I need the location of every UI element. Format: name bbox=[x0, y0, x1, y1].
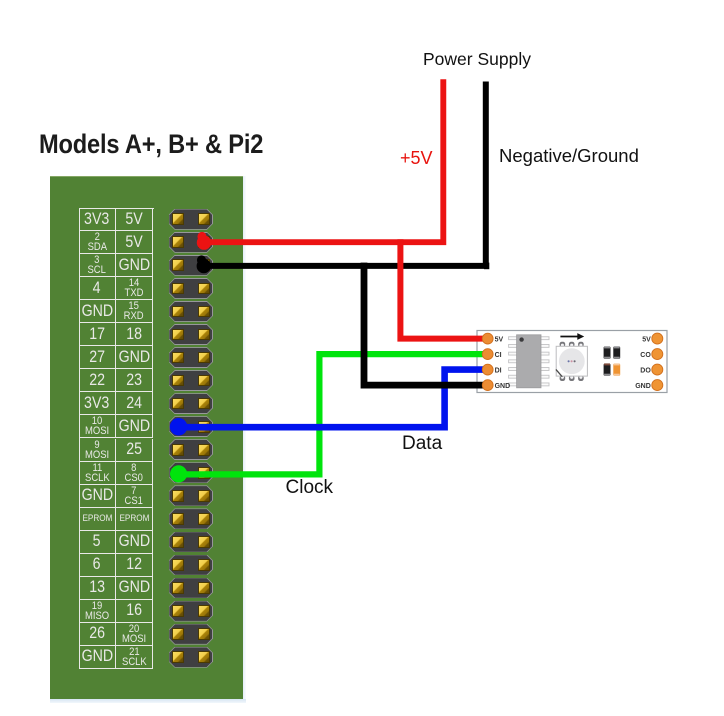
pin label row 13: GND | 7/CS1 bbox=[79, 485, 116, 508]
capacitor C3 bbox=[604, 363, 611, 375]
pin label row 11: 9/MOSI | 25 bbox=[79, 439, 116, 462]
capacitor C1 bbox=[604, 346, 611, 359]
LED strip module board outline bbox=[477, 331, 667, 393]
red wire branch to module 5V bbox=[397, 239, 489, 338]
header pin pair row 7 (physical pins 13-14) bbox=[169, 347, 213, 368]
header pin pair row 15 (physical pins 29-30) bbox=[169, 532, 213, 553]
red junction dot at 5V pin bbox=[197, 235, 211, 249]
label Power Supply bbox=[423, 49, 531, 70]
wires bbox=[170, 79, 490, 482]
module left pad DI bbox=[482, 364, 501, 375]
svg-text:DI: DI bbox=[495, 368, 502, 375]
pin label row 18: 19/MISO | 16 bbox=[79, 600, 116, 623]
header pin pair row 4 (physical pins 7-8) bbox=[169, 278, 213, 299]
red +5V wire: supply drop bbox=[204, 79, 443, 242]
pin label table frame bbox=[79, 208, 154, 669]
pin label row 3: 3/SCL | GND bbox=[79, 254, 116, 277]
pin label row 1: 3V3 | 5V bbox=[79, 208, 116, 231]
pin label row 14: EPROM | EPROM bbox=[79, 508, 116, 531]
blue junction dot at MOSI pin bbox=[170, 418, 188, 436]
header pin pair row 8 (physical pins 15-16) bbox=[169, 370, 213, 391]
pin label row 19: 26 | 20/MOSI bbox=[79, 623, 116, 646]
header pin pair row 20 (physical pins 39-40) bbox=[169, 647, 213, 668]
pin label row 15: 5 | GND bbox=[79, 531, 116, 554]
pin label row 6: 17 | 18 bbox=[79, 323, 116, 346]
board right shadow edge bbox=[243, 176, 246, 699]
Raspberry Pi GPIO board bbox=[50, 176, 243, 700]
pads bbox=[482, 333, 662, 391]
pin label row 8: 22 | 23 bbox=[79, 369, 116, 392]
module right pad 5V bbox=[642, 333, 663, 344]
LED strip module U2 board outline bbox=[477, 331, 667, 393]
pin label row 4: 4 | 14/TXD bbox=[79, 277, 116, 300]
header pin pair row 16 (physical pins 31-32) bbox=[169, 555, 213, 576]
header pin pair row 12 (physical pins 23-24) bbox=[169, 462, 213, 483]
board bottom shadow edge bbox=[50, 699, 246, 703]
module left pad CI bbox=[482, 349, 501, 360]
driver IC U3 body bbox=[517, 335, 541, 388]
svg-text:CO: CO bbox=[640, 352, 651, 359]
header pin pair row 6 (physical pins 11-12) bbox=[169, 324, 213, 345]
black ground wire: supply drop bbox=[204, 82, 486, 266]
black junction dot at GND pin bbox=[197, 259, 211, 273]
GPIO pin-label table bbox=[0, 0, 724, 1]
svg-text:GND: GND bbox=[635, 383, 651, 390]
pin label row 5: GND | 15/RXD bbox=[79, 300, 116, 323]
pin label row 12: 11/SCLK | 8/CS0 bbox=[79, 462, 116, 485]
pin label row 17: 13 | GND bbox=[79, 577, 116, 600]
black ground wire: stub past corner bbox=[484, 263, 489, 270]
header pin pair row 9 (physical pins 17-18) bbox=[169, 393, 213, 414]
pin label row 16: 6 | 12 bbox=[79, 554, 116, 577]
header pin pair row 14 (physical pins 27-28) bbox=[169, 508, 213, 529]
resistor R1 bbox=[613, 363, 620, 375]
green junction dot at SCLK pin bbox=[170, 465, 187, 482]
header pin pair row 17 (physical pins 33-34) bbox=[169, 578, 213, 599]
svg-text:GND: GND bbox=[495, 383, 511, 390]
green Clock wire from pin 23 (GPIO11 SCLK) to CI bbox=[179, 354, 489, 474]
capacitor C2 bbox=[613, 346, 620, 359]
header pin pair row 19 (physical pins 37-38) bbox=[169, 624, 213, 645]
driver IC U3 pins bbox=[509, 337, 549, 386]
label Clock bbox=[286, 477, 334, 499]
label +5V bbox=[400, 148, 433, 169]
module left pad 5V bbox=[482, 333, 503, 344]
header pin pair row 11 (physical pins 21-22) bbox=[169, 439, 213, 460]
header pin pair row 10 (physical pins 19-20) bbox=[169, 416, 213, 437]
title Models A+, B+ & Pi2 bbox=[39, 129, 263, 160]
pin label row 9: 3V3 | 24 bbox=[79, 392, 116, 415]
module right pad CO bbox=[640, 349, 663, 360]
svg-text:5V: 5V bbox=[642, 337, 651, 344]
pin label row 20: GND | 21/SCLK bbox=[79, 646, 116, 669]
module left pad GND bbox=[482, 380, 510, 391]
svg-text:DO: DO bbox=[640, 368, 651, 375]
header pin pair row 13 (physical pins 25-26) bbox=[169, 485, 213, 506]
header pin pair row 5 (physical pins 9-10) bbox=[169, 301, 213, 322]
header pin pair row 18 (physical pins 35-36) bbox=[169, 601, 213, 622]
module right pad DO bbox=[640, 364, 663, 375]
svg-text:CI: CI bbox=[495, 352, 502, 359]
label Negative/Ground bbox=[499, 145, 639, 167]
header pin pair row 3 (physical pins 5-6) bbox=[169, 255, 213, 276]
pin label row 7: 27 | GND bbox=[79, 346, 116, 369]
svg-text:5V: 5V bbox=[495, 337, 504, 344]
pin label row 2: 2/SDA | 5V bbox=[79, 231, 116, 254]
header pin pair row 1 (physical pins 1-2) bbox=[169, 209, 213, 230]
data direction arrow bbox=[560, 333, 584, 340]
label Data bbox=[402, 433, 442, 455]
black ground wire branch to module GND bbox=[361, 263, 489, 386]
header pin pair row 2 (physical pins 3-4) bbox=[169, 232, 213, 253]
blue Data wire from pin 19 (GPIO10 MOSI) to DI bbox=[179, 370, 489, 428]
GPIO header pin blocks bbox=[0, 0, 724, 1]
pin label row 10: 10/MOSI | GND bbox=[79, 415, 116, 438]
LED D1 package bbox=[556, 342, 588, 381]
module right pad GND bbox=[635, 380, 663, 391]
